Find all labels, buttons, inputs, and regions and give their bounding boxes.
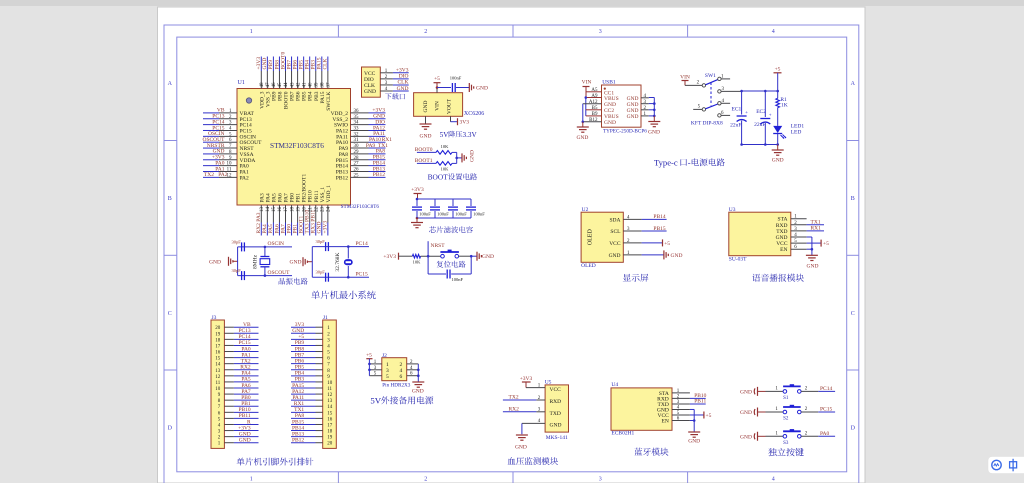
svg-text:VCC: VCC <box>609 241 621 247</box>
svg-text:10: 10 <box>227 162 233 167</box>
svg-text:10: 10 <box>327 381 333 386</box>
U1 pin 34 SWIO <box>351 124 369 126</box>
svg-text:STA: STA <box>778 217 788 223</box>
svg-text:GND: GND <box>239 438 251 444</box>
svg-text:S3: S3 <box>783 441 789 446</box>
U1 pin 15 PA5 <box>272 205 274 223</box>
U6 GND pin to ground <box>425 116 427 124</box>
svg-text:GND: GND <box>515 445 527 451</box>
svg-text:VCC: VCC <box>776 241 788 247</box>
led LED1 <box>773 126 782 133</box>
U1 pin 2 PC13 <box>219 118 237 120</box>
svg-text:RXD: RXD <box>550 399 562 405</box>
wire net bottom pin 15 <box>272 223 274 236</box>
ground symbol U5 <box>516 434 528 436</box>
svg-text:GND: GND <box>550 423 562 429</box>
U1 pin 13 PA3 <box>260 205 262 223</box>
U1 pin 47 VSS_3 <box>266 71 268 89</box>
wire net left pin 11 <box>203 171 219 173</box>
svg-text:GND: GND <box>476 86 488 92</box>
wire net PB14 <box>642 218 667 220</box>
svg-text:Pin HDR2X3: Pin HDR2X3 <box>382 383 411 389</box>
wire net left pin 6 <box>203 141 219 143</box>
wire net bottom pin 19 <box>297 223 299 236</box>
wire net bottom pin 22 <box>315 223 317 236</box>
U1 pin 32 PA11 <box>351 135 369 137</box>
capacitor C9 30pF <box>312 246 348 248</box>
ground symbol J2 <box>412 381 424 383</box>
wire button to gnd <box>459 255 472 257</box>
wire filter top rail <box>417 198 471 200</box>
ground symbol rail <box>777 145 779 150</box>
crystal X1 8MHz <box>264 246 267 249</box>
svg-text:+: + <box>769 114 772 119</box>
wire net bottom pin 24 <box>327 223 329 236</box>
svg-text:GND: GND <box>671 253 683 259</box>
svg-text:BOOT: BOOT <box>428 173 449 182</box>
svg-text:XC6206: XC6206 <box>464 111 484 117</box>
capacitor C4 100nF <box>470 199 472 206</box>
ground symbol U3 <box>806 254 818 256</box>
svg-text:A5: A5 <box>591 88 598 93</box>
U1 pin 41 PB5 <box>303 71 305 89</box>
wire net CLK <box>393 84 409 86</box>
wire net top pin 46 <box>272 57 274 72</box>
svg-text:EN: EN <box>661 419 668 425</box>
wire net PB5 J1 <box>291 369 316 371</box>
wire net left pin 1 <box>203 112 219 114</box>
wire net TX1 J1 <box>291 411 316 413</box>
wire net PA0 J3 <box>234 351 259 353</box>
svg-text:PB12: PB12 <box>336 175 348 181</box>
svg-text:14: 14 <box>215 363 221 368</box>
caption download port <box>385 93 391 99</box>
caption independent buttons <box>768 448 776 456</box>
svg-text:EC2: EC2 <box>756 109 766 115</box>
svg-text:GND: GND <box>609 253 621 259</box>
svg-text:STM32F103C8T6: STM32F103C8T6 <box>270 141 324 150</box>
wire net PB4 J1 <box>291 375 316 377</box>
viewer toolbar overlay <box>988 457 1024 474</box>
svg-text:10K: 10K <box>441 144 450 149</box>
wire net PB15 <box>642 230 667 232</box>
svg-text:VIN: VIN <box>680 75 690 81</box>
svg-text:38: 38 <box>321 82 326 88</box>
caption display <box>623 274 631 282</box>
gnd flag BOOT <box>461 153 463 162</box>
wire net bottom pin 21 <box>309 223 311 236</box>
U1 pin 38 PA15 <box>321 71 323 89</box>
U6 VOUT to 3V3 <box>450 116 452 121</box>
wire net PB0 J3 <box>234 399 259 401</box>
U1 pin 33 PA12 <box>351 129 369 131</box>
svg-text:SCL: SCL <box>610 229 621 235</box>
svg-text:31: 31 <box>354 138 360 143</box>
caption MCU minimal system <box>311 291 320 300</box>
wire net top pin 39 <box>315 57 317 72</box>
U1 pin 27 PB14 <box>351 165 369 167</box>
svg-text:GND: GND <box>627 114 639 120</box>
svg-text:3: 3 <box>599 29 602 35</box>
wire net bottom pin 23 <box>321 223 323 236</box>
U1 pin 21 PB10 <box>309 205 311 223</box>
svg-text:32: 32 <box>354 132 360 137</box>
wire J2 left <box>368 359 370 376</box>
svg-text:PC15: PC15 <box>820 407 832 413</box>
svg-text:VIN: VIN <box>582 80 592 86</box>
U1 pin 3 PC14 <box>219 124 237 126</box>
svg-text:18: 18 <box>327 430 333 435</box>
svg-text:OLED: OLED <box>588 229 594 246</box>
svg-text:25: 25 <box>354 173 360 178</box>
svg-text:20: 20 <box>215 326 221 331</box>
svg-text:48: 48 <box>260 82 265 88</box>
wire crystal2 left rail <box>311 247 313 278</box>
wire net PB11 J3 <box>234 417 259 419</box>
svg-text:STM32F103C8T6: STM32F103C8T6 <box>341 204 380 210</box>
svg-text:GND: GND <box>604 120 616 126</box>
svg-text:22uF: 22uF <box>730 123 741 129</box>
svg-text:S2: S2 <box>783 417 789 422</box>
svg-text:CLK: CLK <box>323 58 329 69</box>
ground symbol usb left <box>582 122 584 127</box>
U1 pin 17 PA7 <box>285 205 287 223</box>
svg-text:LED: LED <box>791 130 802 136</box>
U1 pin 26 PB13 <box>351 171 369 173</box>
wire BOOT1 <box>417 162 436 164</box>
svg-text:35: 35 <box>354 115 360 120</box>
svg-text:Type-c: Type-c <box>654 158 678 168</box>
svg-text:15: 15 <box>215 357 221 362</box>
svg-text:11: 11 <box>215 381 220 386</box>
capacitor C5 100nF <box>451 83 453 92</box>
svg-text:30pF: 30pF <box>316 239 326 244</box>
caption reset circuit <box>437 261 444 268</box>
U1 pin 35 VSS_2 <box>351 118 369 120</box>
power flag +5 U3 <box>807 242 822 244</box>
svg-text:+5: +5 <box>775 67 781 73</box>
wire net right pin 30 <box>369 147 386 149</box>
svg-text:B: B <box>168 196 172 202</box>
svg-text:14: 14 <box>327 405 333 410</box>
svg-text:10K: 10K <box>413 260 422 265</box>
svg-text:EN: EN <box>780 247 787 253</box>
resistor R1 1K <box>777 91 779 98</box>
wire net right pin 34 <box>369 124 386 126</box>
svg-text:10: 10 <box>215 387 221 392</box>
U1 pin-1 marker <box>246 98 251 103</box>
U1 pin 6 OSCOUT <box>219 141 237 143</box>
wire VIN vertical <box>585 87 587 98</box>
wire BOOT junction <box>456 152 458 163</box>
wire net right pin 28 <box>369 159 386 161</box>
svg-text:17: 17 <box>327 423 333 428</box>
svg-text:39: 39 <box>314 82 319 88</box>
svg-text:26: 26 <box>354 168 360 173</box>
pushbutton S1 <box>766 390 784 392</box>
capacitor C2 100nF <box>434 199 436 206</box>
caption crystal circuit <box>279 278 285 285</box>
wire net right pin 26 <box>369 171 386 173</box>
svg-text:19: 19 <box>296 207 301 213</box>
wire U5 gnd <box>522 422 545 424</box>
U1 pin 25 PB12 <box>351 176 369 178</box>
wire net PB6 J1 <box>291 363 316 365</box>
svg-text:100nF: 100nF <box>450 76 462 81</box>
U1 pin 24 VDD_1 <box>327 205 329 223</box>
wire net PB9 J1 <box>291 344 316 346</box>
svg-text:D: D <box>851 426 856 432</box>
svg-text:NRST: NRST <box>431 243 446 249</box>
svg-text:GND: GND <box>627 108 639 114</box>
svg-text:GND: GND <box>412 389 424 395</box>
wire usb gnd right <box>653 98 655 116</box>
wire net +3V3 <box>393 72 409 74</box>
wire U3 gnd <box>807 236 812 238</box>
wire net PB11 <box>690 403 706 405</box>
wire net right pin 35 <box>369 118 386 120</box>
U1 pin 5 OSCIN <box>219 135 237 137</box>
svg-text:VOUT: VOUT <box>447 98 453 114</box>
wire net bottom pin 17 <box>285 223 287 236</box>
wire net PB12 J1 <box>291 442 316 444</box>
svg-text:GND: GND <box>397 86 409 92</box>
svg-text:TXD: TXD <box>550 411 561 417</box>
wire net left pin 9 <box>203 159 219 161</box>
svg-text:GND: GND <box>482 254 494 260</box>
svg-text:33: 33 <box>354 126 360 131</box>
svg-text:1K: 1K <box>781 103 788 109</box>
svg-text:16: 16 <box>215 351 221 356</box>
wire net 3V3 J1 <box>291 326 316 328</box>
U1 pin 30 PA9 <box>351 147 369 149</box>
svg-text:MKS-141: MKS-141 <box>546 435 568 441</box>
U1 pin 12 PA2 <box>219 176 237 178</box>
svg-text:GND: GND <box>470 150 476 162</box>
svg-text:TX2: TX2 <box>204 172 214 178</box>
svg-text:17: 17 <box>215 344 221 349</box>
capacitor C8 30pF <box>238 275 265 277</box>
svg-text:PB15: PB15 <box>653 226 665 232</box>
svg-text:100nF: 100nF <box>419 212 431 217</box>
wire net PB13 J1 <box>291 436 316 438</box>
mcu U1 STM32F103C8T6 <box>237 89 351 206</box>
U1 pin 4 PC15 <box>219 129 237 131</box>
svg-text:TYPEC-250D-BCP6: TYPEC-250D-BCP6 <box>603 128 647 134</box>
svg-text:100nF: 100nF <box>452 277 464 282</box>
svg-text:2: 2 <box>424 29 427 35</box>
svg-text:VDD_1: VDD_1 <box>326 185 332 203</box>
capacitor C10 30pF <box>312 276 348 278</box>
svg-text:+3V3: +3V3 <box>411 187 424 193</box>
wire net PB3 J1 <box>291 381 316 383</box>
wire usb gnd left <box>583 103 602 105</box>
ground symbol U4 <box>688 431 700 433</box>
svg-text:14: 14 <box>266 207 271 213</box>
svg-text:37: 37 <box>327 82 332 88</box>
wire net top pin 40 <box>309 57 311 72</box>
svg-text:30: 30 <box>354 144 360 149</box>
wire net PB10 J3 <box>234 411 259 413</box>
U1 pin 36 VDD_2 <box>351 112 369 114</box>
wire net GND <box>393 90 409 92</box>
U1 pin 20 PB2/BOOT1 <box>303 205 305 223</box>
U1 pin 28 PB15 <box>351 159 369 161</box>
svg-text:+3V3: +3V3 <box>520 376 533 382</box>
svg-text:13: 13 <box>260 207 265 213</box>
capacitor C6 100nF reset <box>428 273 446 275</box>
svg-text:17: 17 <box>284 207 289 213</box>
svg-text:SW1: SW1 <box>705 73 716 79</box>
wire net TX1 <box>807 224 824 226</box>
svg-text:GND: GND <box>364 89 376 95</box>
caption chip filter capacitors <box>429 226 436 233</box>
svg-text:100nF: 100nF <box>455 212 467 217</box>
svg-text:23: 23 <box>321 207 326 213</box>
U1 pin 46 PB9 <box>272 71 274 89</box>
pushbutton RESET <box>440 251 459 253</box>
caption MCU pin header breakout <box>237 458 245 466</box>
svg-text:3.3V: 3.3V <box>463 131 478 139</box>
svg-text:VIN: VIN <box>435 101 441 111</box>
wire net PA11 J1 <box>291 399 316 401</box>
U1 pin 1 VBAT <box>219 112 237 114</box>
svg-text:GND: GND <box>740 389 752 395</box>
wire net PA15 J1 <box>291 387 316 389</box>
wire net PA6 J3 <box>234 387 259 389</box>
resistor R4 10K <box>436 162 452 166</box>
svg-text:A9: A9 <box>591 94 598 99</box>
U1 pin 19 PB1 <box>297 205 299 223</box>
U1 pin 14 PA4 <box>266 205 268 223</box>
svg-text:B: B <box>851 196 855 202</box>
svg-text:PB12: PB12 <box>292 438 304 444</box>
svg-text:PA2: PA2 <box>240 175 250 181</box>
svg-text:4: 4 <box>772 29 775 35</box>
svg-text:PA0: PA0 <box>820 431 830 437</box>
capacitor C1 100nF <box>416 199 418 206</box>
svg-text:15: 15 <box>327 411 333 416</box>
svg-text:TX2: TX2 <box>509 395 519 401</box>
wire net right pin 31 <box>369 141 386 143</box>
svg-text:+5: +5 <box>366 352 372 358</box>
svg-text:RX2: RX2 <box>509 406 520 412</box>
svg-text:SWCLK: SWCLK <box>326 91 332 110</box>
svg-text:GND: GND <box>290 260 302 266</box>
U1 pin 43 PB7 <box>291 71 293 89</box>
wire net DIO <box>393 78 409 80</box>
svg-text:16: 16 <box>327 417 333 422</box>
U1 pin 42 PB6 <box>297 71 299 89</box>
SW1 pin3 <box>718 90 721 93</box>
svg-text:A: A <box>168 81 173 87</box>
gnd flag oled <box>642 254 664 256</box>
wire net PC13 J3 <box>234 332 259 334</box>
wire +5 rail <box>742 90 778 92</box>
SW1 pin5 <box>693 108 702 110</box>
wire U4 gnd <box>690 408 694 410</box>
SW1 pole1 lever <box>706 80 718 85</box>
svg-text:ECB02H1: ECB02H1 <box>611 431 634 437</box>
wire net right pin 25 <box>369 176 386 178</box>
U1 pin 11 PA1 <box>219 171 237 173</box>
ground symbol filter <box>416 218 418 222</box>
sheet border frame <box>164 25 859 483</box>
svg-text:16: 16 <box>278 207 283 213</box>
wire net PA12 J1 <box>291 393 316 395</box>
svg-text:GND: GND <box>772 158 784 164</box>
svg-text:PB11: PB11 <box>694 399 706 405</box>
svg-text:34: 34 <box>354 121 360 126</box>
wire net PA1 J3 <box>234 357 259 359</box>
svg-text:6: 6 <box>400 374 403 380</box>
wire net left pin 2 <box>203 118 219 120</box>
svg-text:GND: GND <box>604 102 616 108</box>
svg-text:19: 19 <box>327 436 333 441</box>
svg-text:27: 27 <box>354 162 360 167</box>
power flag +5 oled <box>642 242 663 244</box>
svg-text:GND: GND <box>807 263 819 269</box>
wire net right pin 36 <box>369 112 386 114</box>
svg-text:45: 45 <box>278 82 283 88</box>
svg-text:OSCOUT: OSCOUT <box>268 270 291 276</box>
wire net bottom pin 13 <box>260 223 262 236</box>
svg-text:24: 24 <box>327 207 332 213</box>
SW1 pin4 <box>718 102 721 105</box>
svg-text:RXD: RXD <box>776 223 788 229</box>
wire net GND J1 <box>291 332 316 334</box>
capacitor C3 100nF <box>452 199 454 206</box>
svg-text:D: D <box>168 426 173 432</box>
svg-text:22uF: 22uF <box>754 122 765 128</box>
SW1 link dashed <box>710 83 712 106</box>
svg-text:GND: GND <box>423 101 429 113</box>
wire net RX1 <box>807 230 824 232</box>
svg-text:3V3: 3V3 <box>460 120 470 126</box>
U1 pin 40 PB4 <box>309 71 311 89</box>
svg-text:+5: +5 <box>823 241 829 247</box>
wire net right pin 32 <box>369 135 386 137</box>
svg-text:1: 1 <box>250 476 253 482</box>
U1 pin 9 VDDA <box>219 159 237 161</box>
wire net PA8 J1 <box>291 417 316 419</box>
U1 pin 45 PB8 <box>278 71 280 89</box>
svg-text:CC2: CC2 <box>604 108 614 114</box>
svg-text:40: 40 <box>308 82 313 88</box>
SW1 pin1 <box>721 78 730 80</box>
U1 pin 18 PB0 <box>291 205 293 223</box>
svg-text:30pF: 30pF <box>232 268 242 273</box>
wire net top pin 44 <box>285 57 287 72</box>
svg-text:11: 11 <box>327 387 332 392</box>
svg-text:32.768K: 32.768K <box>335 252 341 271</box>
wire filter bottom rail <box>417 217 471 219</box>
U1 pin 22 PB11 <box>315 205 317 223</box>
svg-text:29: 29 <box>354 150 360 155</box>
SW1 pole2 lever <box>706 104 718 109</box>
wire J2 right <box>417 364 419 382</box>
caption bluetooth module <box>634 448 642 456</box>
wire net left pin 4 <box>203 129 219 131</box>
svg-text:U4: U4 <box>611 382 618 388</box>
svg-text:5: 5 <box>386 374 389 380</box>
wire net RX2 J3 <box>234 369 259 371</box>
U1 pin 29 PA8 <box>351 153 369 155</box>
svg-text:PA2: PA2 <box>218 172 228 178</box>
svg-text:10K: 10K <box>441 166 450 171</box>
wire net top pin 42 <box>297 57 299 72</box>
pushbutton S3 <box>766 435 784 437</box>
